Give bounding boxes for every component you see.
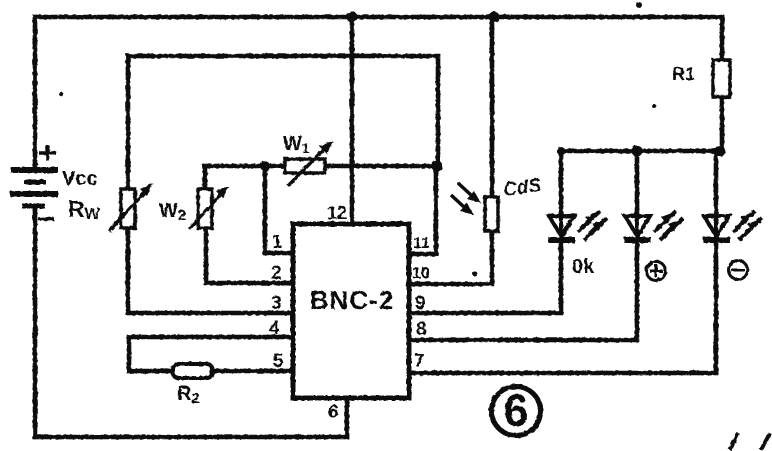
battery minus sign [38, 217, 54, 221]
LED D1 light arrows [578, 211, 607, 240]
svg-text:R1: R1 [672, 64, 695, 84]
node junction LED rail / LED2 [632, 146, 643, 157]
stray speck near pin10 wire [473, 272, 478, 277]
wire LED1 anode [559, 151, 564, 217]
label plus indicator [647, 262, 666, 281]
wire CdS riser [490, 17, 495, 197]
wire R2 right lead to pin 5 [212, 369, 293, 374]
node junction top rail / pin12 riser [347, 12, 358, 23]
svg-text:1: 1 [272, 232, 283, 253]
svg-text:3: 3 [271, 293, 282, 314]
svg-text:9: 9 [415, 293, 426, 314]
LED D3 light arrows [733, 211, 762, 240]
stray speck near R1 [652, 104, 656, 108]
wire W2 lower lead to pin 2 [206, 227, 293, 283]
svg-text:RW: RW [68, 196, 101, 223]
battery plus sign [39, 145, 56, 161]
wire inner loop top (y=56) [128, 56, 438, 166]
LED D3 (minus) [703, 151, 730, 373]
wire Rw upper lead [126, 56, 131, 190]
wire pin6 vertical [345, 399, 350, 437]
battery Vcc [10, 170, 58, 206]
wire W1 rail y=166 [204, 164, 438, 169]
stray speck top left [59, 92, 63, 96]
svg-text:6: 6 [328, 402, 339, 423]
LED D2 (plus) [624, 151, 651, 340]
svg-text:2: 2 [271, 263, 282, 284]
wire left rail from battery [33, 17, 38, 170]
resistor R2 body [173, 364, 212, 378]
wire bottom rail to pin 6 [35, 435, 347, 440]
wire CdS lower lead to pin 10 [409, 231, 492, 284]
node junction W1 rail / pin1 drop [260, 161, 270, 171]
resistor Rw body (variable) [121, 189, 135, 228]
photoresistor CdS body [485, 197, 498, 231]
wire R1 lower lead [720, 97, 725, 151]
svg-text:10: 10 [412, 265, 430, 282]
potentiometer W1 body [285, 159, 325, 173]
IC U1 BNC-2 body [293, 224, 409, 398]
node junction W1 rail / pin11 drop [432, 161, 443, 172]
svg-text:11: 11 [413, 235, 430, 252]
svg-text:7: 7 [414, 351, 425, 372]
node junction top rail / CdS riser [489, 12, 500, 23]
resistor R1 body [713, 60, 730, 97]
wire pin 7 to LED3 [409, 243, 716, 373]
stray mark slash 2 [761, 433, 770, 450]
wire pin 1 connection [265, 166, 293, 253]
wire LED2 anode [635, 151, 640, 217]
LED D2 light arrows [654, 211, 683, 240]
wire pin 4 loop [129, 337, 293, 371]
potentiometer W2 arrow [189, 186, 229, 229]
potentiometer W2 body [198, 189, 212, 228]
svg-text:W1: W1 [283, 133, 310, 156]
svg-text:W2: W2 [159, 200, 186, 224]
svg-text:5: 5 [273, 351, 284, 372]
label minus indicator [729, 261, 748, 280]
svg-text:R2: R2 [177, 383, 200, 407]
wire R1 upper lead [720, 17, 725, 60]
wire Rw lower lead to pin 3 [128, 227, 293, 313]
wire pin 8 to LED2 [409, 243, 637, 340]
wire pin 11 connection [409, 166, 436, 254]
stray mark slash 1 [730, 433, 738, 450]
photoresistor CdS light arrows [451, 183, 481, 215]
wire pin 9 to LED1 [409, 243, 561, 313]
resistor Rw arrow [109, 183, 153, 231]
wire LED top rail [561, 149, 722, 154]
node junction LED rail / R1 [715, 146, 726, 157]
wire left rail below battery [33, 206, 38, 437]
stray speck top right [636, 2, 642, 8]
wire LED3 anode [714, 151, 719, 217]
svg-text:CdS: CdS [502, 175, 543, 201]
svg-text:4: 4 [269, 318, 280, 339]
LED D1 (0k) [548, 151, 575, 313]
svg-text:Vcc: Vcc [62, 168, 98, 190]
svg-text:0k: 0k [572, 256, 595, 278]
wire top rail Vcc [35, 15, 722, 20]
wire pin 12 riser [350, 17, 355, 224]
node corner LED rail / LED1 [557, 147, 565, 155]
svg-text:6: 6 [503, 385, 528, 436]
svg-text:BNC-2: BNC-2 [310, 285, 394, 315]
svg-text:12: 12 [327, 203, 347, 223]
wire pin 5 / R2 lead [129, 369, 173, 374]
svg-text:8: 8 [416, 319, 427, 340]
figure number circled 6 [492, 385, 541, 436]
potentiometer W1 arrow [288, 141, 333, 186]
wire W2 upper lead [203, 166, 208, 189]
